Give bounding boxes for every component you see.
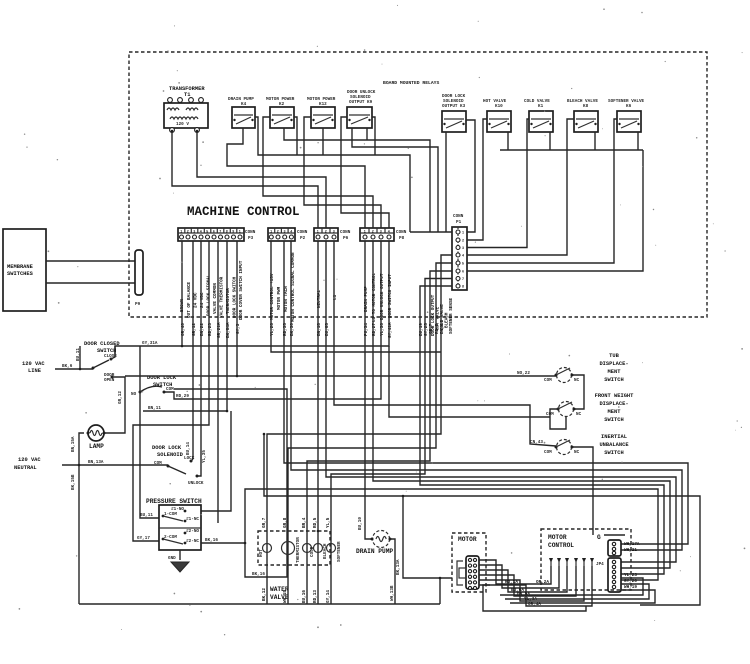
svg-text:SWITCH: SWITCH [604, 450, 623, 456]
wire P2.1 step into bundle [271, 241, 441, 352]
wire front weight hook [550, 409, 566, 429]
svg-text:6: 6 [462, 271, 464, 275]
relay K8 BLEACH VALVE [567, 99, 598, 132]
svg-text:SOFTENER: SOFTENER [337, 541, 342, 562]
svg-text:WH,17A: WH,17A [624, 542, 640, 547]
bus valve relay commons [500, 149, 643, 151]
wire K6 left stub [614, 119, 617, 132]
svg-text:SOFTENER SENSE: SOFTENER SENSE [449, 297, 454, 334]
svg-text:CONN: CONN [396, 230, 407, 235]
svg-text:TUB: TUB [609, 353, 619, 359]
svg-text:P1: P1 [456, 220, 462, 225]
motor connector [457, 556, 479, 590]
connector P6 [314, 228, 351, 241]
wire K2 bottom to P1 feed b [284, 128, 430, 232]
wire K12 bottom to bus [322, 128, 324, 155]
svg-text:BU,11: BU,11 [76, 348, 81, 361]
svg-text:DISPLACE-: DISPLACE- [599, 401, 628, 407]
wire K10 left stub [483, 119, 487, 132]
svg-text:UNLOCK: UNLOCK [188, 481, 204, 486]
svg-text:BK,13A: BK,13A [396, 559, 401, 575]
svg-text:NO,22: NO,22 [517, 371, 530, 376]
svg-text:CONN: CONN [340, 230, 351, 235]
motor wire 4 [479, 566, 576, 596]
svg-text:WH,13B: WH,13B [390, 585, 395, 601]
svg-text:G: G [597, 534, 601, 541]
wire P8.4 door closed input [115, 241, 389, 357]
connector P1 [452, 214, 467, 290]
machine control dashed board outline [129, 52, 707, 317]
svg-text:9: 9 [232, 231, 234, 235]
svg-text:WH,21: WH,21 [624, 548, 637, 553]
wire color labels below board [181, 322, 445, 338]
svg-text:CONTROL: CONTROL [548, 542, 574, 549]
wire K9 bottom to P1 feed a [352, 128, 438, 232]
svg-text:6: 6 [213, 231, 215, 235]
wire 120vac line [55, 368, 93, 370]
svg-text:SWITCH: SWITCH [604, 377, 623, 383]
wire P3.2 to solenoid lock [192, 241, 194, 459]
svg-text:K6: K6 [626, 104, 632, 109]
P8 pin signal labels [364, 273, 393, 322]
svg-text:BK,6: BK,6 [62, 364, 73, 369]
relay K12 MOTOR POWER [307, 97, 336, 128]
svg-text:MOTOR: MOTOR [548, 534, 567, 541]
wire membrane to P9 upper [46, 260, 135, 262]
svg-text:COM: COM [166, 387, 174, 392]
svg-text:WH,15: WH,15 [283, 590, 288, 603]
svg-text:UNBALANCE: UNBALANCE [599, 442, 629, 448]
wire P3.10 tee to tub line [236, 241, 238, 376]
svg-text:120 VAC: 120 VAC [22, 361, 45, 367]
tub feed line [125, 375, 556, 377]
svg-text:CLOSE: CLOSE [104, 354, 117, 359]
valve columns to bus [266, 565, 268, 604]
svg-text:3: 3 [193, 231, 195, 235]
svg-text:MACHINE CONTROL: MACHINE CONTROL [187, 205, 300, 219]
motor wire labels [505, 580, 549, 607]
wire P3.6 stub [217, 241, 219, 523]
wire P3.3 to solenoid unlock [197, 241, 201, 476]
bottom bus [79, 603, 440, 605]
svg-text:INERTIAL: INERTIAL [601, 434, 627, 440]
svg-text:8: 8 [462, 286, 464, 290]
motor wire 2 [479, 565, 559, 588]
tub displacement switch [544, 368, 580, 384]
connector pin numbers [180, 231, 390, 235]
motor box [452, 533, 486, 592]
svg-text:OUTPUT K3: OUTPUT K3 [442, 104, 466, 109]
svg-text:DRAIN PUMP: DRAIN PUMP [356, 548, 393, 555]
wire P1.8 outer loop [420, 286, 664, 574]
wire door lock switch to pressure com1 [140, 346, 159, 518]
relay K4 DRAIN PUMP [228, 97, 255, 128]
P2 pin signal labels [270, 252, 296, 322]
wire K4 bottom to P8 pin1 [227, 128, 365, 228]
wire K12 left to P8 pin3 [304, 117, 381, 228]
wire K9 left to P8 pin4 [341, 117, 389, 228]
svg-text:BOARD MOUNTED RELAYS: BOARD MOUNTED RELAYS [383, 80, 439, 86]
svg-text:MEMBRANE: MEMBRANE [7, 264, 34, 270]
motor wire 1 [479, 560, 551, 584]
svg-text:1: 1 [462, 232, 464, 236]
svg-text:BK,15B: BK,15B [71, 474, 76, 490]
wire tub to front weight [572, 375, 584, 409]
hot valve solenoid [259, 531, 272, 565]
wire K1 right to valve bus [549, 132, 551, 150]
wire K8 left stub [567, 119, 574, 132]
transformer T1 [164, 86, 208, 132]
svg-text:VALVE THERMISTOR: VALVE THERMISTOR [220, 276, 225, 318]
svg-text:5: 5 [462, 263, 464, 267]
wire pump to bus [390, 539, 395, 604]
wire pump tap [403, 496, 440, 578]
P6 pin signal labels [317, 290, 338, 308]
relay K10 HOT VALVE [483, 99, 511, 132]
wire door lock branch to thermistor line [174, 389, 287, 577]
wire pressure output riser loop [201, 489, 658, 580]
svg-text:BU,14: BU,14 [186, 442, 191, 455]
motor wire 3 [479, 566, 567, 592]
svg-text:JP4: JP4 [596, 562, 604, 567]
svg-text:P8: P8 [399, 236, 405, 241]
wire K1 left stub [527, 119, 529, 132]
motor wire 6 [479, 566, 592, 606]
svg-text:CN,43: CN,43 [530, 440, 543, 445]
wire bus riser to motor [440, 578, 452, 604]
wire lamp to neutral and bottom bus [79, 433, 84, 604]
svg-text:GR,7: GR,7 [262, 517, 267, 528]
tub displacement switch label [599, 353, 628, 383]
softener valve solenoid [327, 531, 343, 565]
wire P1.5 to thermistor column [288, 263, 452, 531]
svg-text:1-COM: 1-COM [164, 512, 177, 517]
svg-text:COLD: COLD [310, 546, 315, 557]
svg-text:3: 3 [462, 247, 464, 251]
wire door open to lamp [104, 377, 125, 433]
svg-text:LAMP: LAMP [89, 443, 104, 450]
svg-text:COM: COM [154, 461, 162, 466]
svg-text:4: 4 [290, 231, 292, 235]
svg-text:GR,8: GR,8 [283, 517, 288, 528]
water valve box [258, 531, 330, 601]
motor control lower connector [596, 558, 621, 592]
svg-text:DISPLACE-: DISPLACE- [599, 361, 628, 367]
wire P1.4 to hot valve column [267, 255, 452, 531]
wire transformer primary long run [172, 132, 318, 228]
wire P8.2 loop to motor control e [373, 241, 670, 568]
bus L1 relay commons [255, 117, 410, 232]
svg-text:OUT OF BALANCE: OUT OF BALANCE [187, 281, 192, 318]
svg-text:CONN: CONN [297, 230, 308, 235]
svg-text:1: 1 [239, 231, 241, 235]
svg-text:OUTPUT K9: OUTPUT K9 [349, 100, 373, 105]
wire motor return outer [483, 585, 586, 611]
wire P1 pin2 to K10 [467, 132, 483, 240]
svg-text:3: 3 [284, 231, 286, 235]
wire P8.3 door lock sense [164, 241, 381, 399]
svg-text:K8: K8 [583, 104, 589, 109]
svg-text:BU,11: BU,11 [140, 513, 153, 518]
svg-text:GR,12: GR,12 [118, 391, 123, 404]
svg-text:MOTOR TACH: MOTOR TACH [284, 286, 289, 312]
wire transformer secondary long run [197, 132, 326, 228]
svg-text:GY,20: GY,20 [624, 579, 637, 584]
inertial unbalance switch label [599, 434, 629, 456]
connector P1 pin numbers [462, 232, 464, 290]
svg-text:SOLENOID: SOLENOID [157, 452, 184, 458]
svg-text:LOCK: LOCK [184, 456, 195, 461]
svg-text:GY,31A: GY,31A [142, 341, 158, 346]
wire K9 right to bus [372, 117, 375, 155]
svg-text:THERMISTOR: THERMISTOR [296, 537, 301, 563]
svg-text:3: 3 [333, 231, 335, 235]
svg-text:#1-NO: #1-NO [171, 507, 184, 512]
svg-text:SWITCH: SWITCH [604, 417, 623, 423]
svg-text:GY,17: GY,17 [137, 536, 150, 541]
svg-text:MENT: MENT [608, 409, 622, 415]
relay K6 SOFTENER VALVE [608, 99, 645, 132]
motor control upper connector [608, 540, 621, 556]
motor control box [541, 529, 631, 590]
svg-text:VALVE COMMON: VALVE COMMON [213, 283, 218, 314]
valve column labels above [262, 517, 331, 528]
svg-text:7: 7 [462, 278, 464, 282]
svg-text:GND: GND [168, 556, 176, 561]
membrane switches box [3, 229, 46, 311]
svg-text:NC: NC [576, 412, 582, 417]
svg-text:1: 1 [364, 231, 366, 235]
wire valve-line branch outer loop [264, 434, 700, 605]
svg-text:NC: NC [574, 378, 580, 383]
svg-text:DOOR LOCK: DOOR LOCK [152, 445, 182, 451]
svg-text:BK,16: BK,16 [252, 572, 265, 577]
wire solenoid lock stub [191, 459, 193, 461]
svg-text:#2-NC: #2-NC [186, 539, 199, 544]
wire K2 right to bus [294, 117, 297, 155]
connector P9 [135, 250, 143, 307]
relay K3 DOOR LOCK SOLENOID OUTPUT [442, 94, 466, 132]
wire P1.6 to cold valve column [307, 271, 452, 531]
svg-text:120 V: 120 V [176, 122, 189, 127]
wire K8 right to valve bus [594, 132, 596, 150]
svg-text:7: 7 [219, 231, 221, 235]
svg-text:MOTOR CONTROL SIGNAL COMMON: MOTOR CONTROL SIGNAL COMMON [291, 252, 296, 322]
svg-text:OPEN: OPEN [104, 378, 115, 383]
svg-text:4: 4 [388, 231, 390, 235]
svg-text:2: 2 [372, 231, 374, 235]
wire P8.1 to drain pump [365, 241, 372, 539]
svg-text:LINE: LINE [28, 368, 42, 374]
svg-text:BK,12: BK,12 [262, 588, 267, 601]
connector P8 [360, 228, 407, 241]
svg-text:NEUTRAL: NEUTRAL [14, 465, 37, 471]
wire K3 left down to P1 [445, 132, 447, 232]
svg-text:RD,13: RD,13 [313, 590, 318, 603]
svg-text:MOTOR PWM: MOTOR PWM [277, 286, 282, 310]
svg-text:BN,11: BN,11 [148, 406, 161, 411]
wire P6.2 loop to motor control d [326, 241, 676, 562]
wire pressure output to thermistor [245, 543, 288, 577]
wire P1 pin1 to K3 right [466, 120, 475, 232]
valve thermistor [282, 531, 302, 565]
door lock switch [131, 375, 189, 411]
svg-text:P6: P6 [343, 236, 349, 241]
svg-text:#1-NC: #1-NC [186, 517, 199, 522]
svg-text:YL,23: YL,23 [624, 573, 637, 578]
svg-text:P2: P2 [300, 236, 306, 241]
wire lower connector return c [510, 590, 655, 603]
svg-text:RD,29: RD,29 [176, 394, 189, 399]
svg-text:P9: P9 [135, 302, 141, 307]
inertial unbalance switch [544, 440, 580, 456]
svg-text:BK,16: BK,16 [205, 538, 218, 543]
ground [168, 550, 189, 572]
svg-text:MOTOR: MOTOR [458, 536, 477, 543]
wire inertial to motor control G [572, 447, 593, 535]
svg-text:YL,5: YL,5 [326, 517, 331, 528]
svg-text:120 VAC: 120 VAC [18, 457, 41, 463]
front weight displacement switch [546, 402, 582, 418]
wire K2 left to P8 pin2 [263, 117, 373, 228]
wire P3.1 to door closed line [181, 241, 183, 346]
connector P3 [178, 228, 256, 241]
svg-text:1: 1 [317, 231, 319, 235]
svg-text:2: 2 [277, 231, 279, 235]
cold valve solenoid [303, 531, 316, 565]
svg-text:1: 1 [270, 231, 272, 235]
svg-text:PRESSURE SWITCH: PRESSURE SWITCH [146, 498, 202, 505]
svg-text:8: 8 [226, 231, 228, 235]
lamp [71, 425, 106, 490]
svg-text:GY,14: GY,14 [326, 590, 331, 603]
motor wire 5 [479, 566, 584, 601]
wire P1 pin6 to valve bus [467, 150, 643, 271]
wire P1.7 to softener column [331, 279, 452, 532]
P3 pin signal labels [180, 260, 244, 320]
wire P6.1 neutral to valve column 4 [317, 241, 319, 531]
wire P2.4 loop to motor control c [291, 241, 682, 550]
svg-text:T1: T1 [184, 92, 190, 98]
drain pump [356, 517, 401, 601]
svg-text:SWITCHES: SWITCHES [7, 271, 34, 277]
wire lower connector return a [500, 578, 643, 595]
svg-text:YL,35: YL,35 [202, 450, 207, 463]
svg-text:RD,1A: RD,1A [505, 580, 518, 585]
svg-text:4: 4 [200, 231, 202, 235]
svg-text:NO: NO [131, 392, 137, 397]
connector P2 [268, 228, 308, 241]
svg-text:2: 2 [325, 231, 327, 235]
wire K6 right to valve bus [637, 132, 639, 150]
wire P1 pin5 to K6 [467, 132, 614, 263]
wire P1 pin3 to K1 [467, 132, 527, 248]
wire lower connector return b [505, 584, 649, 599]
svg-text:BU,10: BU,10 [358, 517, 363, 530]
wire P8.4 lower branch to front weight hook [389, 346, 550, 417]
motor control connector labels [624, 542, 640, 590]
svg-text:RD,5: RD,5 [313, 517, 318, 528]
svg-text:MENT: MENT [608, 369, 622, 375]
svg-text:2-COM: 2-COM [164, 535, 177, 540]
svg-text:HOT: HOT [259, 549, 264, 557]
front weight switch label [595, 393, 635, 423]
svg-text:COM: COM [544, 450, 552, 455]
wire P3.8 to door lock switch [226, 241, 228, 411]
wire K10 right to valve bus [507, 132, 509, 150]
wire BN11 column down to pressure [201, 411, 231, 511]
svg-text:3: 3 [380, 231, 382, 235]
door lock solenoid [152, 442, 207, 486]
motor control G terminal [597, 534, 625, 541]
pressure switch [137, 498, 202, 550]
svg-text:4: 4 [462, 255, 464, 259]
relay K1 COLD VALVE [524, 99, 553, 132]
door closed switch [62, 341, 158, 383]
svg-text:BR,4: BR,4 [302, 517, 307, 528]
wire line to door closed output [79, 346, 81, 369]
svg-text:5: 5 [206, 231, 208, 235]
svg-text:1: 1 [180, 231, 182, 235]
wire membrane to P9 lower [46, 282, 135, 284]
wire P3.4 to pressure com2 [133, 241, 209, 541]
wire K9 bottom stub [366, 128, 368, 140]
relay K2 MOTOR POWER [266, 97, 295, 128]
svg-text:P3: P3 [248, 236, 254, 241]
svg-text:CONN: CONN [453, 214, 464, 219]
wire P6.3 to inertial switch [334, 241, 556, 446]
motor control pin arrows [549, 558, 594, 566]
svg-text:FRONT WEIGHT: FRONT WEIGHT [595, 393, 635, 399]
svg-text:2: 2 [187, 231, 189, 235]
svg-text:K1: K1 [538, 104, 544, 109]
svg-text:K10: K10 [495, 104, 503, 109]
wire node into P1 pin1 [410, 231, 452, 233]
svg-text:NC: NC [574, 450, 580, 455]
svg-text:#2-NO: #2-NO [186, 529, 199, 534]
valve column labels below [262, 588, 331, 603]
P1 pin signal labels [431, 294, 454, 336]
bleach valve solenoid [314, 531, 329, 565]
svg-text:WH,19: WH,19 [624, 585, 637, 590]
svg-text:2: 2 [462, 240, 464, 244]
svg-text:24 VDC: 24 VDC [194, 292, 199, 308]
wire BN,11 door lock switch [143, 410, 227, 412]
wire P1 pin4 to K8 [467, 132, 567, 255]
svg-text:OR,2A: OR,2A [536, 580, 549, 585]
svg-text:CONN: CONN [245, 230, 256, 235]
svg-text:BN,13A: BN,13A [88, 460, 104, 465]
wire 120vac neutral [62, 464, 168, 466]
relay K9 DOOR UNLOCK SOLENOID OUTPUT [347, 90, 376, 128]
svg-text:COM: COM [544, 378, 552, 383]
svg-text:BU,16: BU,16 [302, 590, 307, 603]
svg-text:DOOR COVER SWITCH INPUT: DOOR COVER SWITCH INPUT [239, 260, 244, 320]
svg-text:BN,15A: BN,15A [71, 436, 76, 452]
wire P2.3 loop to motor control b [284, 241, 688, 544]
